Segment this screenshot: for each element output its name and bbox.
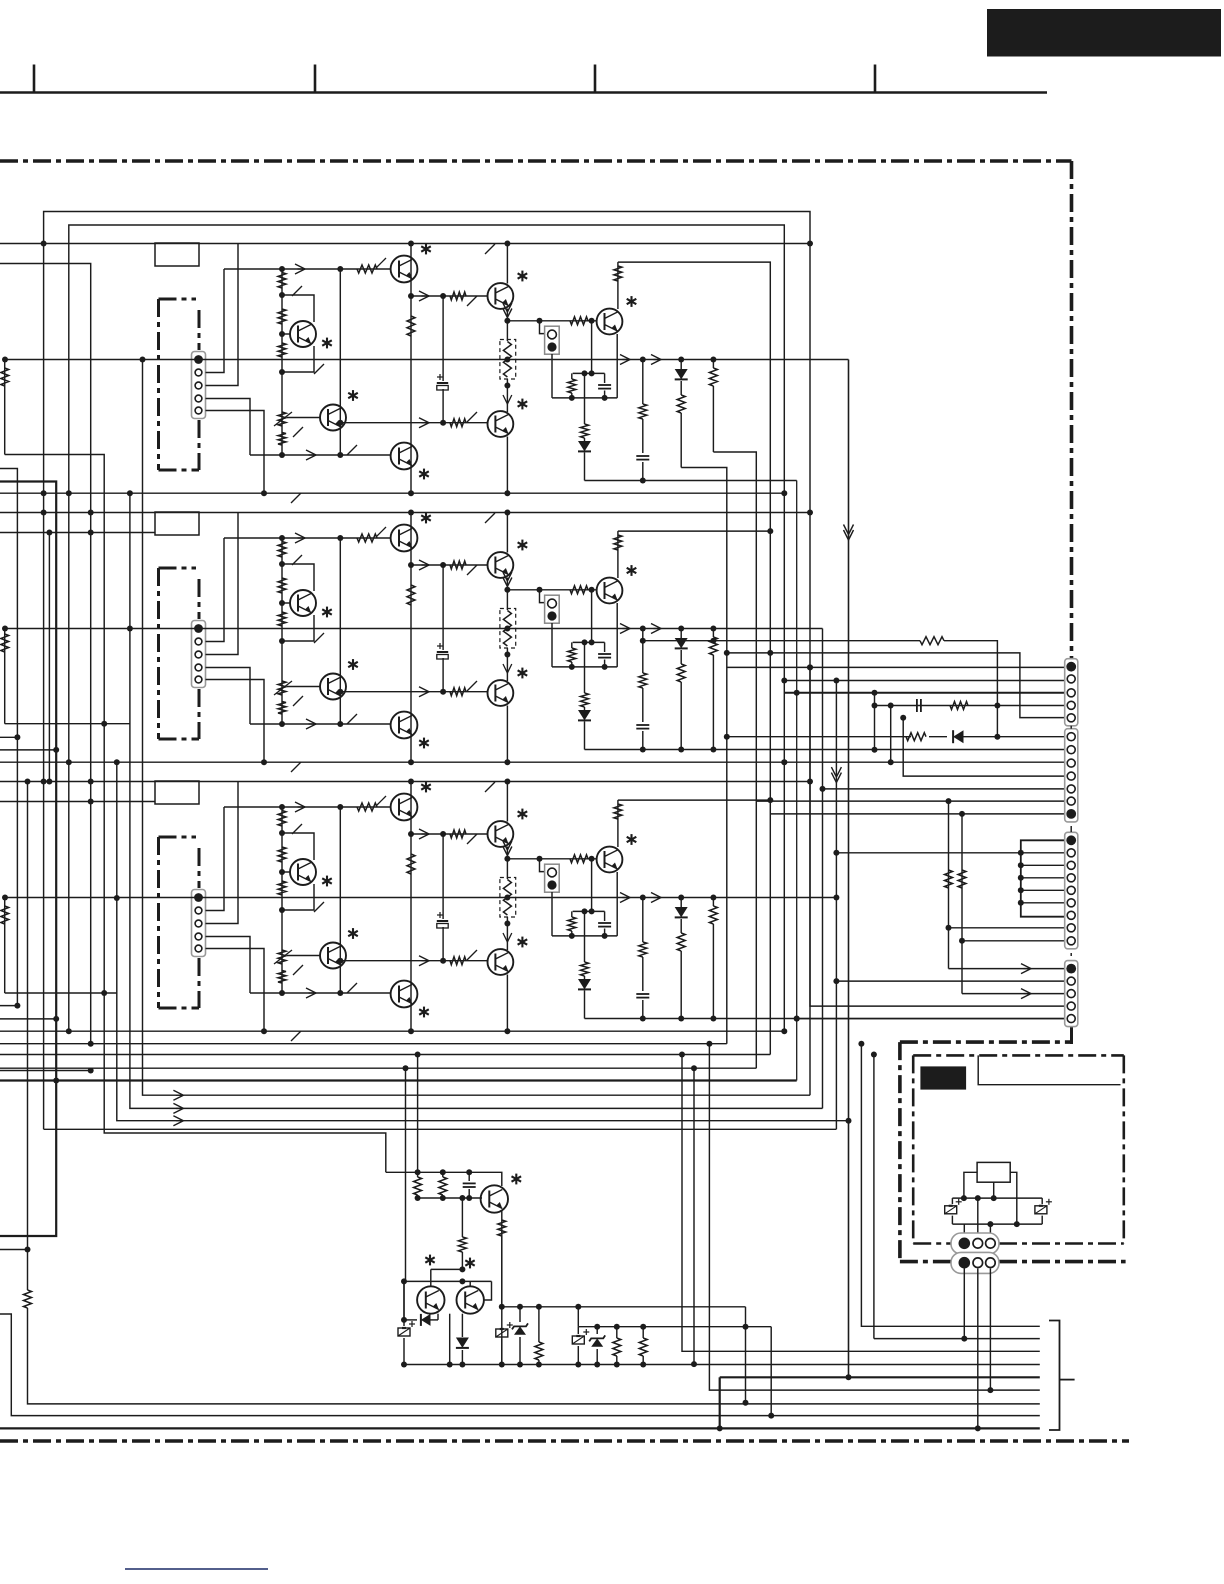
bundle line y1338.6 [874, 1338, 1040, 1340]
wire drop to diode row [405, 1068, 407, 1281]
slash mark bottom rail (channel 1) [291, 493, 301, 503]
transistor Q4 (channel 1) [391, 443, 429, 480]
input connector (channel 3) [192, 890, 206, 957]
resistor upper drive (channel 2) [357, 527, 386, 542]
wire Q2 base (channel 2) [287, 686, 320, 688]
bootstrap capacitor (channel 3) [437, 912, 448, 928]
left bus x129.9 (channel2 rail feed) [127, 490, 179, 1108]
wire left stub ch3 c [0, 1018, 56, 1020]
arrow upper drive (channel 2) [295, 533, 305, 543]
left bus x104.2 [5, 455, 386, 1173]
wire Q7 emitter (channel 2) [616, 603, 618, 667]
footer rule (blue) [125, 1568, 268, 1570]
arrow Q6 base (channel 3) [419, 956, 429, 966]
left bus x27.5 [25, 779, 31, 1253]
wire Q2 base (channel 1) [287, 417, 320, 419]
label box (channel 2) [155, 512, 199, 535]
top border tick 1 [33, 65, 36, 93]
wire pin4 link (channel 2) [206, 668, 251, 725]
capacitor preamp [463, 1172, 476, 1198]
wire RC top (channel 3) [573, 908, 605, 914]
resistor Q6 base drive (channel 3) [450, 950, 477, 965]
slash lower drive (channel 2) [347, 714, 357, 724]
capacitor A feed [917, 699, 921, 712]
wire B feed 6 [756, 798, 1064, 969]
resistor mid drop [458, 1237, 466, 1272]
slash lower drive (channel 1) [347, 445, 357, 455]
vertical ch3 out x836.4 [833, 678, 839, 1130]
wire top rail (channel 2) [0, 510, 813, 516]
zener sense a [512, 1307, 528, 1368]
wire C pin9 feed [962, 940, 1065, 942]
transistor Q bottom 1 [481, 1174, 522, 1213]
wire bottom rail (channel 2) [0, 759, 787, 765]
wire Q3 to Q5 (channel 1) [408, 293, 488, 299]
slash mark top rail (channel 3) [485, 782, 495, 792]
resistor preamp a [414, 1172, 422, 1198]
wire pin2 link (channel 3) [206, 807, 225, 911]
transistor Q1 (channel 2) [290, 590, 332, 617]
psu regulator box [977, 1162, 1010, 1182]
wire Q7 emitter (channel 1) [616, 334, 618, 398]
wire B feed 4 [888, 703, 1065, 777]
wire Q5 to Q7 (channel 3) [507, 856, 596, 862]
trimmer ladder R4 (channel 1) [274, 412, 303, 437]
resistor ladder R2 (channel 3) [278, 847, 286, 862]
wire sense route right 2 [768, 1327, 774, 1419]
resistor diode branch (channel 3) [677, 933, 685, 1006]
wire mid vertical (channel 2) [337, 535, 343, 727]
resistor left chain a [1, 368, 9, 386]
wire A feed 1 (r) [727, 664, 1065, 670]
board outline dash-dot bottom [0, 1439, 1129, 1443]
resistor rail branch (channel 2) [709, 629, 717, 722]
arrow Q3 to Q5 (channel 1) [419, 291, 429, 301]
arrow Q5 emitter (channel 1) [503, 303, 512, 318]
wire Q7 collector (channel 2) [617, 531, 619, 578]
wire F pin2 route [975, 1269, 981, 1432]
wire check terminal down (channel 2) [551, 623, 553, 667]
thermal resistor dashed box (channel 3) [500, 878, 516, 918]
resistor Q7 base (channel 3) [570, 855, 588, 863]
wire Q7 base down (channel 2) [589, 590, 595, 646]
resistor Q7 base (channel 2) [570, 586, 588, 594]
resistor ladder R1 (channel 2) [278, 542, 286, 558]
capacitor rail leg (channel 3) [636, 957, 649, 1019]
wire C common top [1021, 840, 1065, 916]
resistor Q7 base (channel 1) [570, 317, 588, 325]
input connector (channel 2) [192, 621, 206, 688]
wire lower drive (channel 1) [250, 454, 390, 456]
bootstrap capacitor (channel 2) [437, 643, 448, 659]
arrow Q6 base (channel 2) [419, 687, 429, 697]
vertical ch1 out x848.5 [846, 360, 852, 1381]
wire Q5 emitter (channel 2) [504, 578, 510, 611]
connector CN A [1065, 659, 1078, 726]
resistor main vertical (channel 3) [407, 854, 415, 874]
wire Q1 base (channel 1) [282, 333, 290, 335]
second wiring box [69, 225, 788, 1031]
wire pin3 link (channel 3) [206, 782, 239, 924]
diode B feed 1 [929, 730, 1065, 743]
resistor RC (channel 2) [568, 642, 576, 667]
resistor diode branch (channel 1) [677, 395, 685, 468]
wire left chain to bundle [28, 1308, 1040, 1404]
wire main vertical (channel 1) [410, 244, 412, 494]
resistor ladder R1 (channel 1) [278, 273, 286, 289]
thermal resistor dashed box (channel 1) [500, 340, 516, 380]
diode rail branch (channel 2) [675, 629, 688, 665]
wire left stub ch2 b [0, 736, 17, 738]
transistor Q5 (channel 1) [488, 271, 528, 309]
transistor Q7 (channel 1) [597, 296, 637, 334]
electrolytic cap bottom left [398, 1320, 415, 1365]
diode sense chain (channel 2) [578, 707, 591, 750]
resistor left chain bottom [24, 1290, 32, 1308]
wire Q1 emitter loop (channel 3) [282, 884, 324, 912]
transistor Q6 (channel 2) [488, 668, 528, 706]
wire diode branch route (channel 1) [681, 468, 730, 1044]
wire sense route right [743, 1307, 749, 1406]
wire Q6 base (channel 2) [337, 689, 487, 695]
wire pin2 link (channel 1) [206, 269, 225, 373]
psu reg left wire [961, 1172, 977, 1201]
bus y1108.4 dot [691, 1361, 697, 1367]
transistor Q bottom 3 [457, 1286, 484, 1313]
wire drive splitter (channel 2) [440, 565, 446, 695]
wire left stub ch3 label [0, 799, 155, 805]
drop x682 [682, 1055, 1040, 1352]
transistor Q5 (channel 3) [488, 809, 528, 847]
arrow lower drive (channel 2) [306, 719, 316, 729]
wire Q2 base (channel 3) [287, 955, 320, 957]
bus line y1068.2 [0, 1065, 756, 1071]
psu reg right wire [1010, 1172, 1020, 1227]
wire Q7 base down (channel 1) [589, 321, 595, 377]
resistor upper drive (channel 3) [357, 796, 386, 811]
wire RC bottom (channel 3) [552, 933, 617, 939]
vertical x873.9 [871, 1052, 877, 1339]
arrow Q6 base (channel 1) [419, 418, 429, 428]
resistor rail branch (channel 3) [709, 898, 717, 991]
transistor Q5 (channel 2) [488, 540, 528, 578]
capacitor rail leg (channel 1) [636, 419, 649, 481]
wire C pin 3 [1018, 862, 1065, 868]
arrow signal rail b (channel 3) [651, 893, 661, 903]
wire Q5 vertical upper (channel 1) [506, 244, 508, 284]
wire jumper link (channel 1) [537, 318, 546, 334]
wire Q5 vertical upper (channel 2) [506, 513, 508, 553]
wire main vertical (channel 2) [410, 513, 412, 763]
wire A feed 2 [781, 678, 1064, 684]
wire D feed 4 [810, 667, 1065, 1006]
resistor upper drive (channel 1) [357, 258, 386, 273]
arrow Q6 collector (channel 1) [503, 395, 512, 404]
wire left stub ch3 b [0, 1005, 17, 1007]
bus line y1054.5 [0, 1052, 770, 1058]
bus line y1108.4 [178, 1107, 822, 1109]
component outline dash-dot box (channel 2) [159, 568, 200, 739]
wire A row left [640, 638, 920, 644]
top border tick 3 [594, 65, 597, 93]
resistor main vertical (channel 2) [407, 585, 415, 605]
wire C pin8 feed [949, 927, 1065, 929]
wire Q5 emitter (channel 1) [504, 309, 510, 342]
wire pin5 link (channel 2) [206, 680, 268, 766]
wire left stub ch2 f [5, 723, 130, 725]
wire RC bottom (channel 2) [552, 664, 617, 670]
wire Q5 emitter (channel 3) [504, 847, 510, 880]
wire pin4 link (channel 3) [206, 937, 251, 994]
wire Q1 base (channel 2) [282, 602, 290, 604]
wire pin3 link (channel 1) [206, 244, 239, 386]
resistor A feed [950, 702, 968, 710]
transistor Q1 (channel 3) [290, 859, 332, 886]
slash lower drive (channel 3) [347, 983, 357, 993]
wire signal rail (channel 3) [2, 895, 839, 901]
capacitor rail leg (channel 2) [636, 688, 649, 750]
wire upper drive (channel 3) [224, 806, 390, 808]
wire left stub b [0, 1314, 1040, 1416]
resistor Q7 collector (channel 2) [614, 535, 622, 550]
drop x709.4 [709, 1044, 1039, 1393]
wire check terminal down (channel 3) [551, 892, 553, 936]
wire bottom rail left leg [403, 1281, 405, 1320]
wire B feed 3 (ch2 bottom rail) [784, 759, 1064, 765]
wire A feed 3 (heavy) [784, 690, 1064, 696]
component outline dash-dot box (channel 1) [159, 299, 200, 470]
wire upper drive (channel 2) [224, 537, 390, 539]
wire Q1 emitter loop (channel 1) [282, 346, 324, 374]
wire Qb2 emitter diode [401, 1281, 417, 1323]
arrow signal rail b (channel 1) [651, 355, 661, 365]
left bus x49.4 [46, 530, 52, 785]
wire Qb1 emitter [499, 1211, 505, 1310]
psu mid rail [952, 1197, 1042, 1199]
wire Q7 emitter (channel 3) [616, 872, 618, 936]
link between CN C and CN D [1070, 953, 1072, 956]
board outline dash-dot right (stub below connectors) [1070, 1026, 1073, 1044]
psu conn wires [964, 1195, 990, 1236]
transistor Q4 (channel 3) [391, 981, 429, 1018]
wire Q1 collector loop (channel 1) [282, 286, 314, 322]
capacitor RC (channel 2) [598, 642, 611, 667]
vertical ch2 out x822.5 [822, 629, 824, 1109]
resistor RC (channel 3) [568, 911, 576, 936]
wire B feed 5 [820, 786, 1065, 792]
wire resistor branch route (channel 1) [713, 452, 756, 1068]
resistor Q7 collector (channel 1) [614, 266, 622, 281]
psu bottom rail [952, 1221, 1042, 1227]
wire diode row bottom (channel 2) [585, 747, 1065, 753]
wire left stub ch3 f [5, 992, 117, 994]
input connector (channel 1) [192, 352, 206, 419]
vertical x861.4 [858, 1041, 1039, 1327]
wire Qb1 base drop [461, 1198, 463, 1237]
wire Q6 vertical (channel 2) [504, 648, 510, 681]
resistor sense a [535, 1307, 543, 1368]
slash mark bottom rail (channel 3) [291, 1031, 301, 1041]
wire signal rail (channel 2) [2, 626, 823, 632]
wire left stub ch2 label [0, 530, 155, 536]
resistor left chain c [1, 906, 9, 924]
wire B feed 7 (filled) [770, 811, 1064, 994]
psu ecap right [1035, 1198, 1052, 1224]
left bus x17.4 [0, 469, 20, 1009]
resistor ladder R3 (channel 1) [278, 343, 286, 357]
transistor Q3 (channel 1) [391, 244, 431, 283]
left bus x142.5 (channel1 rail feed) [140, 357, 179, 1096]
bus line y1080.5 (heavy) [0, 481, 797, 1081]
resistor sense b [613, 1327, 621, 1368]
bundle brace [1049, 1321, 1075, 1431]
arrow Q3 to Q5 (channel 2) [419, 560, 429, 570]
wire Q1 collector loop (channel 3) [282, 824, 314, 860]
wire diode row bottom (channel 1) [585, 478, 797, 484]
wire Qb3 collector loop [470, 1281, 491, 1300]
zener sense b [589, 1327, 605, 1368]
capacitor RC (channel 1) [598, 373, 611, 398]
wire left stub y1070.5 [0, 1068, 94, 1074]
asterisk pair b [465, 1258, 474, 1269]
trimmer ladder R4 (channel 3) [274, 950, 303, 975]
arrow upper drive (channel 3) [295, 802, 305, 812]
wire C pin 2 [1018, 850, 1065, 856]
wire check terminal down (channel 1) [551, 354, 553, 398]
psu top wire [978, 1055, 1120, 1084]
bus line y1043.7 [0, 1041, 727, 1047]
wire diode row bottom (channel 3) [585, 1016, 1065, 1022]
resistor Q5 base (channel 2) [450, 561, 477, 575]
wire Q6 vertical (channel 3) [504, 917, 510, 950]
resistor Q7 collector (channel 3) [614, 804, 622, 819]
diode sense chain (channel 1) [578, 438, 591, 481]
wire Q7 top feed (channel 2) [618, 528, 773, 534]
wire diode branch route (channel 2) [680, 737, 682, 750]
top border tick 4 [874, 65, 877, 93]
arrow ch1 out a [844, 525, 854, 541]
connector CN C [1065, 832, 1078, 949]
top border tick 2 [314, 65, 317, 93]
drop x694 [693, 1068, 695, 1364]
resistor A row [920, 637, 944, 645]
wire A feed 5 [724, 650, 1065, 718]
wire C pin2 feed [833, 850, 1020, 856]
connector CN F [951, 1252, 999, 1273]
wire Q3 to Q5 (channel 2) [408, 562, 488, 568]
left input chain x4.7 (ch2) [4, 629, 6, 724]
wire input ladder (channel 3) [279, 804, 285, 996]
wire Q7 collector (channel 3) [617, 800, 619, 847]
wire RC top (channel 2) [573, 639, 605, 645]
thermal resistor dashed box (channel 2) [500, 609, 516, 649]
left input chain x4.7 (ch1) [4, 360, 6, 455]
diode Qb3 emitter [456, 1314, 469, 1368]
resistor preamp b [439, 1172, 447, 1198]
resistor ladder R5 (channel 2) [278, 702, 286, 715]
wire Q6 emitter (channel 2) [506, 706, 508, 763]
arrow signal rail a (channel 2) [620, 624, 630, 634]
resistor ladder R3 (channel 2) [278, 612, 286, 626]
bootstrap capacitor (channel 1) [437, 374, 448, 390]
wire Q7 collector (channel 1) [617, 262, 619, 309]
wire Qb1 emitter chain [499, 1236, 505, 1368]
wire pin2 link (channel 2) [206, 538, 225, 642]
resistor sense chain (channel 2) [581, 642, 589, 707]
check terminal (channel 3) [545, 864, 560, 892]
bus line y1129.3 from outer box [44, 1128, 837, 1130]
slash mark bottom rail (channel 2) [291, 762, 301, 772]
diode sense chain (channel 3) [578, 976, 591, 1019]
wire Q5 to Q7 (channel 1) [507, 318, 596, 324]
psu title black box [920, 1066, 966, 1089]
title block (solid black) [987, 9, 1221, 57]
transistor Q4 (channel 2) [391, 712, 429, 749]
resistor ladder R1 (channel 3) [278, 811, 286, 827]
transistor Q6 (channel 3) [488, 937, 528, 975]
ecap sense b [572, 1327, 589, 1368]
resistor sense chain (channel 1) [581, 373, 589, 438]
wire Q1 emitter loop (channel 2) [282, 615, 324, 643]
wire upper drive (channel 1) [224, 268, 390, 270]
arrow ch1 out b [831, 767, 841, 783]
arrow Q5 emitter (channel 3) [503, 841, 512, 856]
wire D feed 1 [949, 964, 1065, 974]
wire drive splitter (channel 3) [440, 834, 446, 964]
wire drop to preamp [415, 1052, 421, 1173]
outer wiring box [44, 212, 813, 1130]
wire mid vertical (channel 3) [337, 804, 343, 996]
transistor Q2 (channel 2) [320, 659, 358, 699]
left bus x90.7 [0, 264, 94, 1047]
left bus x56.2 (heavy) [0, 482, 59, 1237]
transistor Q bottom 2 [417, 1286, 444, 1313]
psu outer dash-dot frame [900, 1042, 1126, 1262]
top border rule [0, 91, 1047, 94]
board outline dash-dot right (upper) [1070, 161, 1074, 659]
bus line y1095.2 [178, 1094, 810, 1096]
transistor Q7 (channel 3) [597, 834, 637, 872]
wire top rail (channel 3) [0, 779, 813, 785]
wire Qb2 collector down [447, 1314, 453, 1368]
wire Q6 emitter (channel 1) [506, 437, 508, 494]
wire input ladder (channel 1) [279, 266, 285, 458]
left bus x116.8 (channel3 rail feed) [114, 759, 179, 1120]
wire Q7 top feed (channel 1) [618, 262, 770, 1054]
wire preamp mid [415, 1195, 482, 1201]
psu inner dash-dot frame [913, 1055, 1124, 1243]
wire signal rail (channel 1) [2, 357, 849, 363]
wire Q1 collector loop (channel 2) [282, 555, 314, 591]
resistor left chain b [1, 634, 9, 652]
resistor B feed 1 [906, 733, 926, 741]
diode rail branch (channel 3) [675, 898, 688, 934]
resistor Qb1 emitter [498, 1220, 506, 1236]
wire diode branch route (channel 3) [680, 1006, 682, 1019]
wire C pin 5 [1018, 887, 1065, 893]
wire Q3 to Q5 (channel 3) [408, 831, 488, 837]
transistor Q1 (channel 1) [290, 321, 332, 348]
wire D feed 5 [794, 1016, 1065, 1022]
arrow bus y1108.4 [173, 1103, 183, 1113]
wire left chain bottom route [0, 1250, 28, 1291]
transistor Q2 (channel 1) [320, 390, 358, 430]
arrow bus y1095.2 [173, 1090, 183, 1100]
wire Q6 base (channel 3) [337, 958, 487, 964]
wire mid vertical (channel 1) [337, 266, 343, 458]
slash mark top rail (channel 1) [485, 244, 495, 254]
link between CN A and CN B [1070, 726, 1072, 729]
